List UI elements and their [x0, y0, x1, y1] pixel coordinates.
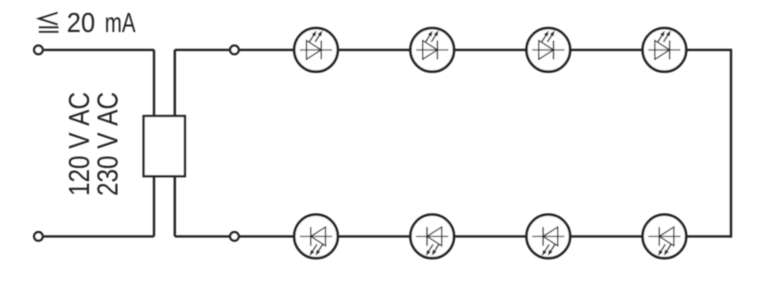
- svg-text:20: 20: [67, 7, 95, 38]
- svg-text:230 V AC: 230 V AC: [92, 92, 124, 196]
- svg-text:120 V AC: 120 V AC: [64, 92, 96, 196]
- svg-text:mA: mA: [105, 7, 136, 38]
